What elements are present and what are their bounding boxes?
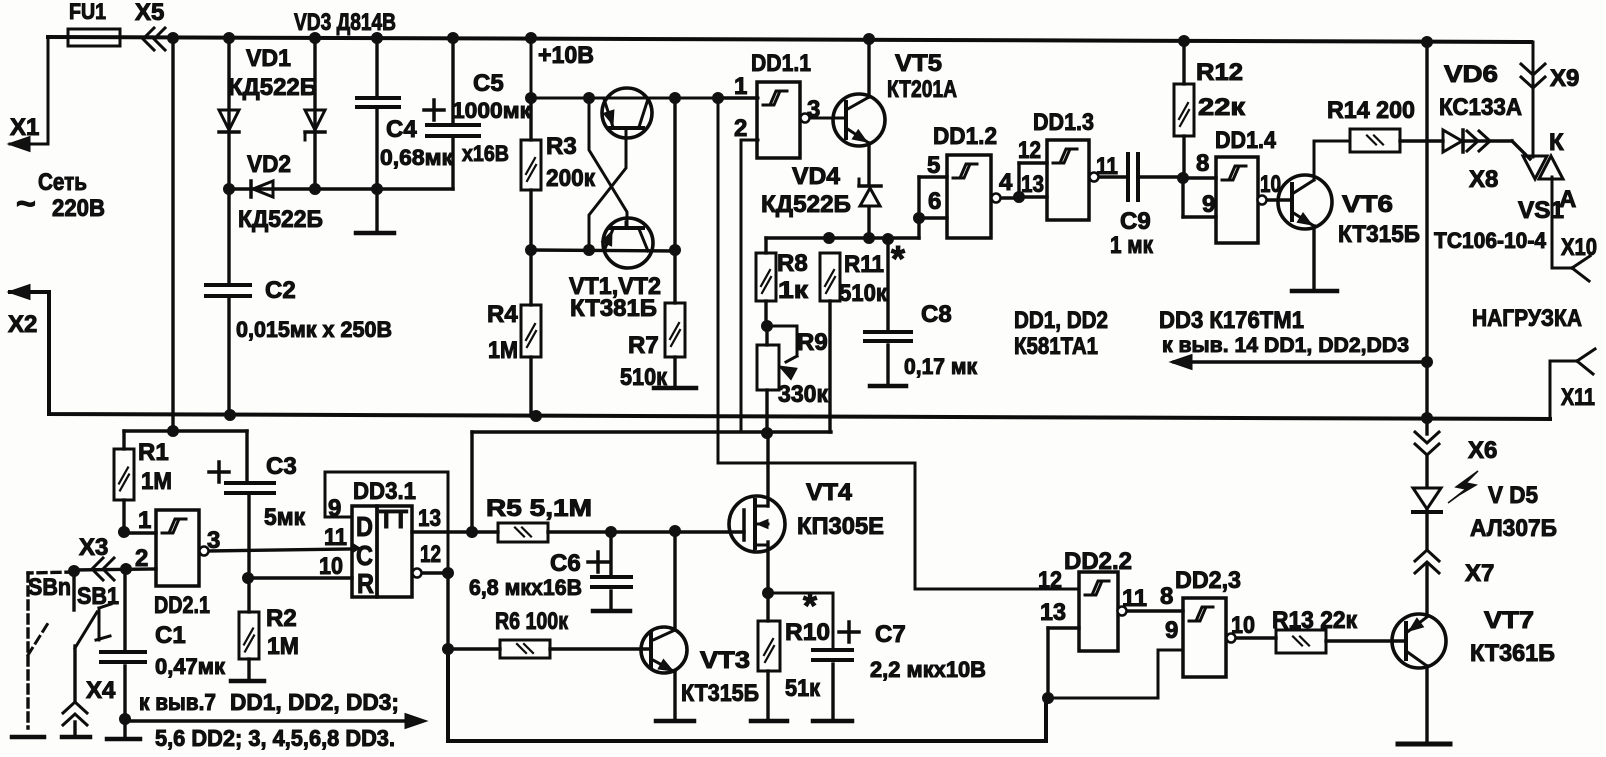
- svg-text:0,015мк x 250В: 0,015мк x 250В: [236, 317, 392, 342]
- svg-text:DD1.3: DD1.3: [1033, 109, 1094, 136]
- svg-text:13: 13: [1040, 599, 1066, 626]
- svg-text:13: 13: [1021, 171, 1044, 198]
- svg-text:R5 5,1М: R5 5,1М: [486, 495, 592, 522]
- svg-text:6: 6: [928, 188, 941, 215]
- svg-text:510к: 510к: [620, 364, 668, 391]
- svg-text:к выв. 14 DD1, DD2,DD3: к выв. 14 DD1, DD2,DD3: [1162, 334, 1409, 357]
- svg-text:1к: 1к: [778, 277, 809, 304]
- svg-text:V D5: V D5: [1488, 482, 1538, 509]
- svg-text:ТС106-10-4: ТС106-10-4: [1434, 228, 1547, 253]
- svg-text:2: 2: [734, 115, 747, 142]
- svg-text:x16В: x16В: [462, 141, 509, 166]
- svg-text:X10: X10: [1561, 234, 1597, 261]
- svg-text:12: 12: [1018, 137, 1041, 164]
- svg-text:X2: X2: [8, 311, 37, 338]
- svg-text:R7: R7: [628, 332, 659, 359]
- svg-text:C1: C1: [155, 622, 186, 649]
- svg-text:DD1.1: DD1.1: [751, 50, 811, 77]
- svg-text:DD2.2: DD2.2: [1064, 548, 1132, 575]
- svg-text:X8: X8: [1469, 166, 1498, 193]
- svg-text:А: А: [1559, 186, 1576, 213]
- svg-text:13: 13: [418, 505, 441, 532]
- svg-text:C9: C9: [1120, 208, 1151, 235]
- svg-text:1М: 1М: [267, 633, 299, 660]
- svg-text:VT7: VT7: [1484, 607, 1534, 634]
- svg-text:3: 3: [207, 527, 220, 554]
- svg-text:R11: R11: [844, 251, 884, 278]
- svg-text:C2: C2: [265, 277, 296, 304]
- svg-text:12: 12: [420, 541, 441, 568]
- svg-text:10: 10: [319, 553, 343, 580]
- svg-text:11: 11: [1096, 153, 1118, 180]
- svg-text:C5: C5: [473, 70, 504, 97]
- svg-text:9: 9: [328, 495, 341, 522]
- svg-text:C4: C4: [386, 116, 417, 143]
- svg-text:R: R: [357, 568, 374, 599]
- svg-text:4: 4: [999, 169, 1013, 196]
- svg-text:5: 5: [927, 152, 940, 179]
- svg-text:9: 9: [1202, 191, 1215, 218]
- svg-text:VD2: VD2: [247, 151, 291, 178]
- svg-text:*: *: [891, 238, 905, 279]
- svg-text:КД522Б: КД522Б: [238, 206, 323, 233]
- svg-text:1: 1: [138, 507, 151, 534]
- svg-text:VS1: VS1: [1518, 197, 1564, 224]
- svg-text:+10В: +10В: [538, 42, 594, 69]
- svg-text:X3: X3: [79, 534, 108, 561]
- svg-text:DD1, DD2, DD3;: DD1, DD2, DD3;: [230, 689, 399, 715]
- svg-text:12: 12: [1038, 567, 1062, 594]
- svg-text:C: C: [356, 540, 373, 571]
- svg-text:VD3 Д814В: VD3 Д814В: [294, 9, 396, 36]
- svg-text:VT5: VT5: [895, 50, 942, 77]
- svg-text:R2: R2: [266, 605, 297, 632]
- svg-text:X7: X7: [1465, 560, 1494, 587]
- svg-text:0,47мк: 0,47мк: [155, 654, 226, 679]
- svg-text:Сеть: Сеть: [38, 169, 87, 196]
- svg-text:R12: R12: [1196, 59, 1243, 86]
- svg-text:R1: R1: [138, 439, 169, 466]
- svg-text:КТ361Б: КТ361Б: [1470, 640, 1555, 667]
- svg-text:C3: C3: [266, 453, 297, 480]
- svg-text:X9: X9: [1550, 65, 1579, 92]
- svg-text:R6 100к: R6 100к: [495, 608, 569, 635]
- svg-text:TT: TT: [379, 504, 408, 534]
- svg-text:510к: 510к: [839, 280, 888, 307]
- svg-text:FU1: FU1: [69, 0, 106, 24]
- svg-text:3: 3: [807, 96, 820, 123]
- svg-text:R3: R3: [546, 133, 577, 160]
- svg-text:8: 8: [1160, 583, 1173, 610]
- svg-text:VT6: VT6: [1342, 191, 1393, 218]
- svg-text:КД522Б: КД522Б: [228, 74, 317, 101]
- svg-text:1 мк: 1 мк: [1110, 232, 1154, 259]
- svg-text:DD2.1: DD2.1: [154, 592, 210, 619]
- svg-text:DD3 К176ТМ1: DD3 К176ТМ1: [1159, 307, 1304, 334]
- svg-text:~: ~: [16, 185, 36, 223]
- svg-text:2,2 мкх10В: 2,2 мкх10В: [870, 657, 986, 682]
- svg-text:C6: C6: [550, 550, 581, 577]
- svg-text:DD2,3: DD2,3: [1175, 567, 1241, 594]
- svg-text:1: 1: [734, 73, 747, 100]
- svg-text:1М: 1М: [488, 337, 518, 364]
- svg-text:R13 22к: R13 22к: [1272, 607, 1358, 634]
- svg-text:X5: X5: [135, 0, 164, 26]
- svg-text:10: 10: [1231, 612, 1255, 639]
- svg-text:DD1.4: DD1.4: [1215, 127, 1277, 154]
- svg-text:DD1, DD2: DD1, DD2: [1014, 307, 1108, 334]
- svg-text:АЛ307Б: АЛ307Б: [1470, 515, 1557, 542]
- svg-text:КТ315Б: КТ315Б: [681, 680, 759, 707]
- svg-text:2: 2: [135, 545, 148, 572]
- svg-text:НАГРУЗКА: НАГРУЗКА: [1472, 305, 1582, 332]
- svg-text:220В: 220В: [52, 195, 105, 222]
- svg-text:КТ381Б: КТ381Б: [570, 295, 657, 322]
- svg-text:10: 10: [1260, 171, 1281, 198]
- svg-text:SBn: SBn: [28, 574, 71, 601]
- svg-text:VD6: VD6: [1444, 61, 1498, 88]
- svg-text:5мк: 5мк: [264, 504, 306, 531]
- svg-text:R14 200: R14 200: [1327, 97, 1415, 124]
- svg-text:0,68мк: 0,68мк: [380, 145, 454, 170]
- svg-text:R4: R4: [487, 301, 518, 328]
- svg-text:X11: X11: [1561, 384, 1595, 411]
- svg-text:VT3: VT3: [700, 647, 750, 674]
- svg-text:D: D: [356, 511, 373, 542]
- svg-text:5,6 DD2; 3, 4,5,6,8 DD3.: 5,6 DD2; 3, 4,5,6,8 DD3.: [155, 725, 395, 751]
- svg-text:11: 11: [324, 524, 347, 551]
- svg-text:DD1.2: DD1.2: [933, 123, 997, 150]
- svg-text:DD3.1: DD3.1: [353, 478, 416, 505]
- svg-text:*: *: [803, 585, 817, 626]
- svg-text:VT4: VT4: [806, 479, 853, 506]
- svg-text:КД522Б: КД522Б: [761, 191, 851, 218]
- svg-text:КТ315Б: КТ315Б: [1338, 221, 1420, 248]
- svg-text:8: 8: [1196, 150, 1209, 177]
- svg-text:9: 9: [1165, 617, 1178, 644]
- svg-text:К581ТА1: К581ТА1: [1014, 333, 1098, 360]
- svg-text:SB1: SB1: [77, 583, 119, 610]
- svg-text:к выв.7: к выв.7: [139, 689, 216, 715]
- svg-text:R8: R8: [777, 250, 808, 277]
- svg-text:0,17 мк: 0,17 мк: [904, 354, 978, 379]
- svg-text:1М: 1М: [141, 468, 172, 495]
- svg-text:11: 11: [1122, 585, 1147, 612]
- svg-text:22к: 22к: [1198, 94, 1246, 121]
- svg-text:X6: X6: [1468, 437, 1497, 464]
- svg-text:6,8 мкх16В: 6,8 мкх16В: [469, 575, 582, 600]
- svg-text:КТ201А: КТ201А: [887, 76, 957, 103]
- svg-text:X4: X4: [86, 677, 116, 704]
- svg-text:КП305Е: КП305Е: [797, 513, 884, 540]
- svg-text:C7: C7: [875, 621, 906, 648]
- svg-text:200к: 200к: [546, 165, 596, 192]
- svg-text:330к: 330к: [778, 381, 829, 408]
- svg-text:КС133А: КС133А: [1439, 94, 1522, 121]
- svg-text:К: К: [1549, 129, 1564, 156]
- svg-text:VD1: VD1: [246, 45, 291, 72]
- svg-text:1000мк: 1000мк: [452, 98, 532, 123]
- svg-text:R9: R9: [797, 329, 828, 356]
- svg-text:VD4: VD4: [792, 163, 841, 190]
- svg-text:C8: C8: [921, 301, 952, 328]
- svg-text:X1: X1: [10, 114, 39, 141]
- svg-text:51к: 51к: [785, 675, 821, 702]
